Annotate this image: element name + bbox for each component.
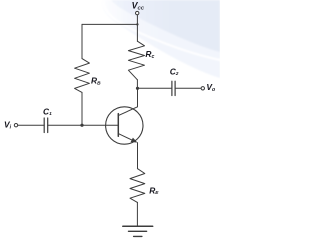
- wire Vcc stem: [136, 15, 138, 25]
- transistor Q1 body: [106, 107, 143, 144]
- node: collector junction dot: [136, 87, 139, 90]
- wire collector node to C2: [138, 87, 172, 89]
- wire C1 to base: [48, 124, 119, 126]
- node: base junction dot: [80, 124, 83, 127]
- resistor RB: [75, 59, 90, 93]
- wire left branch down to RB: [81, 24, 83, 58]
- wire Vcc rail to RC: [136, 24, 138, 41]
- wire C2 to Vo: [175, 87, 201, 89]
- transistor Q1 base bar: [117, 114, 119, 137]
- capacitor C2: [172, 81, 175, 95]
- wire RC to collector node: [136, 80, 138, 89]
- capacitor C1: [44, 118, 48, 133]
- wire top rail: [82, 23, 137, 25]
- terminal Vo: [201, 87, 204, 90]
- node: Vcc rail junction dot: [136, 23, 138, 25]
- transistor Q1 collector lead: [118, 107, 137, 116]
- wire emitter down to RE: [137, 143, 139, 169]
- wire RE to ground: [136, 202, 138, 226]
- wire collector node down to transistor: [137, 88, 139, 107]
- terminal Vcc: [136, 11, 139, 14]
- wire input Vi to C1: [18, 124, 44, 126]
- transistor Q1 emitter arrowhead: [131, 138, 138, 143]
- ground: [123, 225, 153, 227]
- resistor RC: [128, 41, 144, 80]
- wire RB to base node: [81, 92, 83, 125]
- transistor Q1 emitter lead: [118, 134, 136, 142]
- terminal Vi: [14, 124, 17, 127]
- resistor RE: [130, 169, 145, 203]
